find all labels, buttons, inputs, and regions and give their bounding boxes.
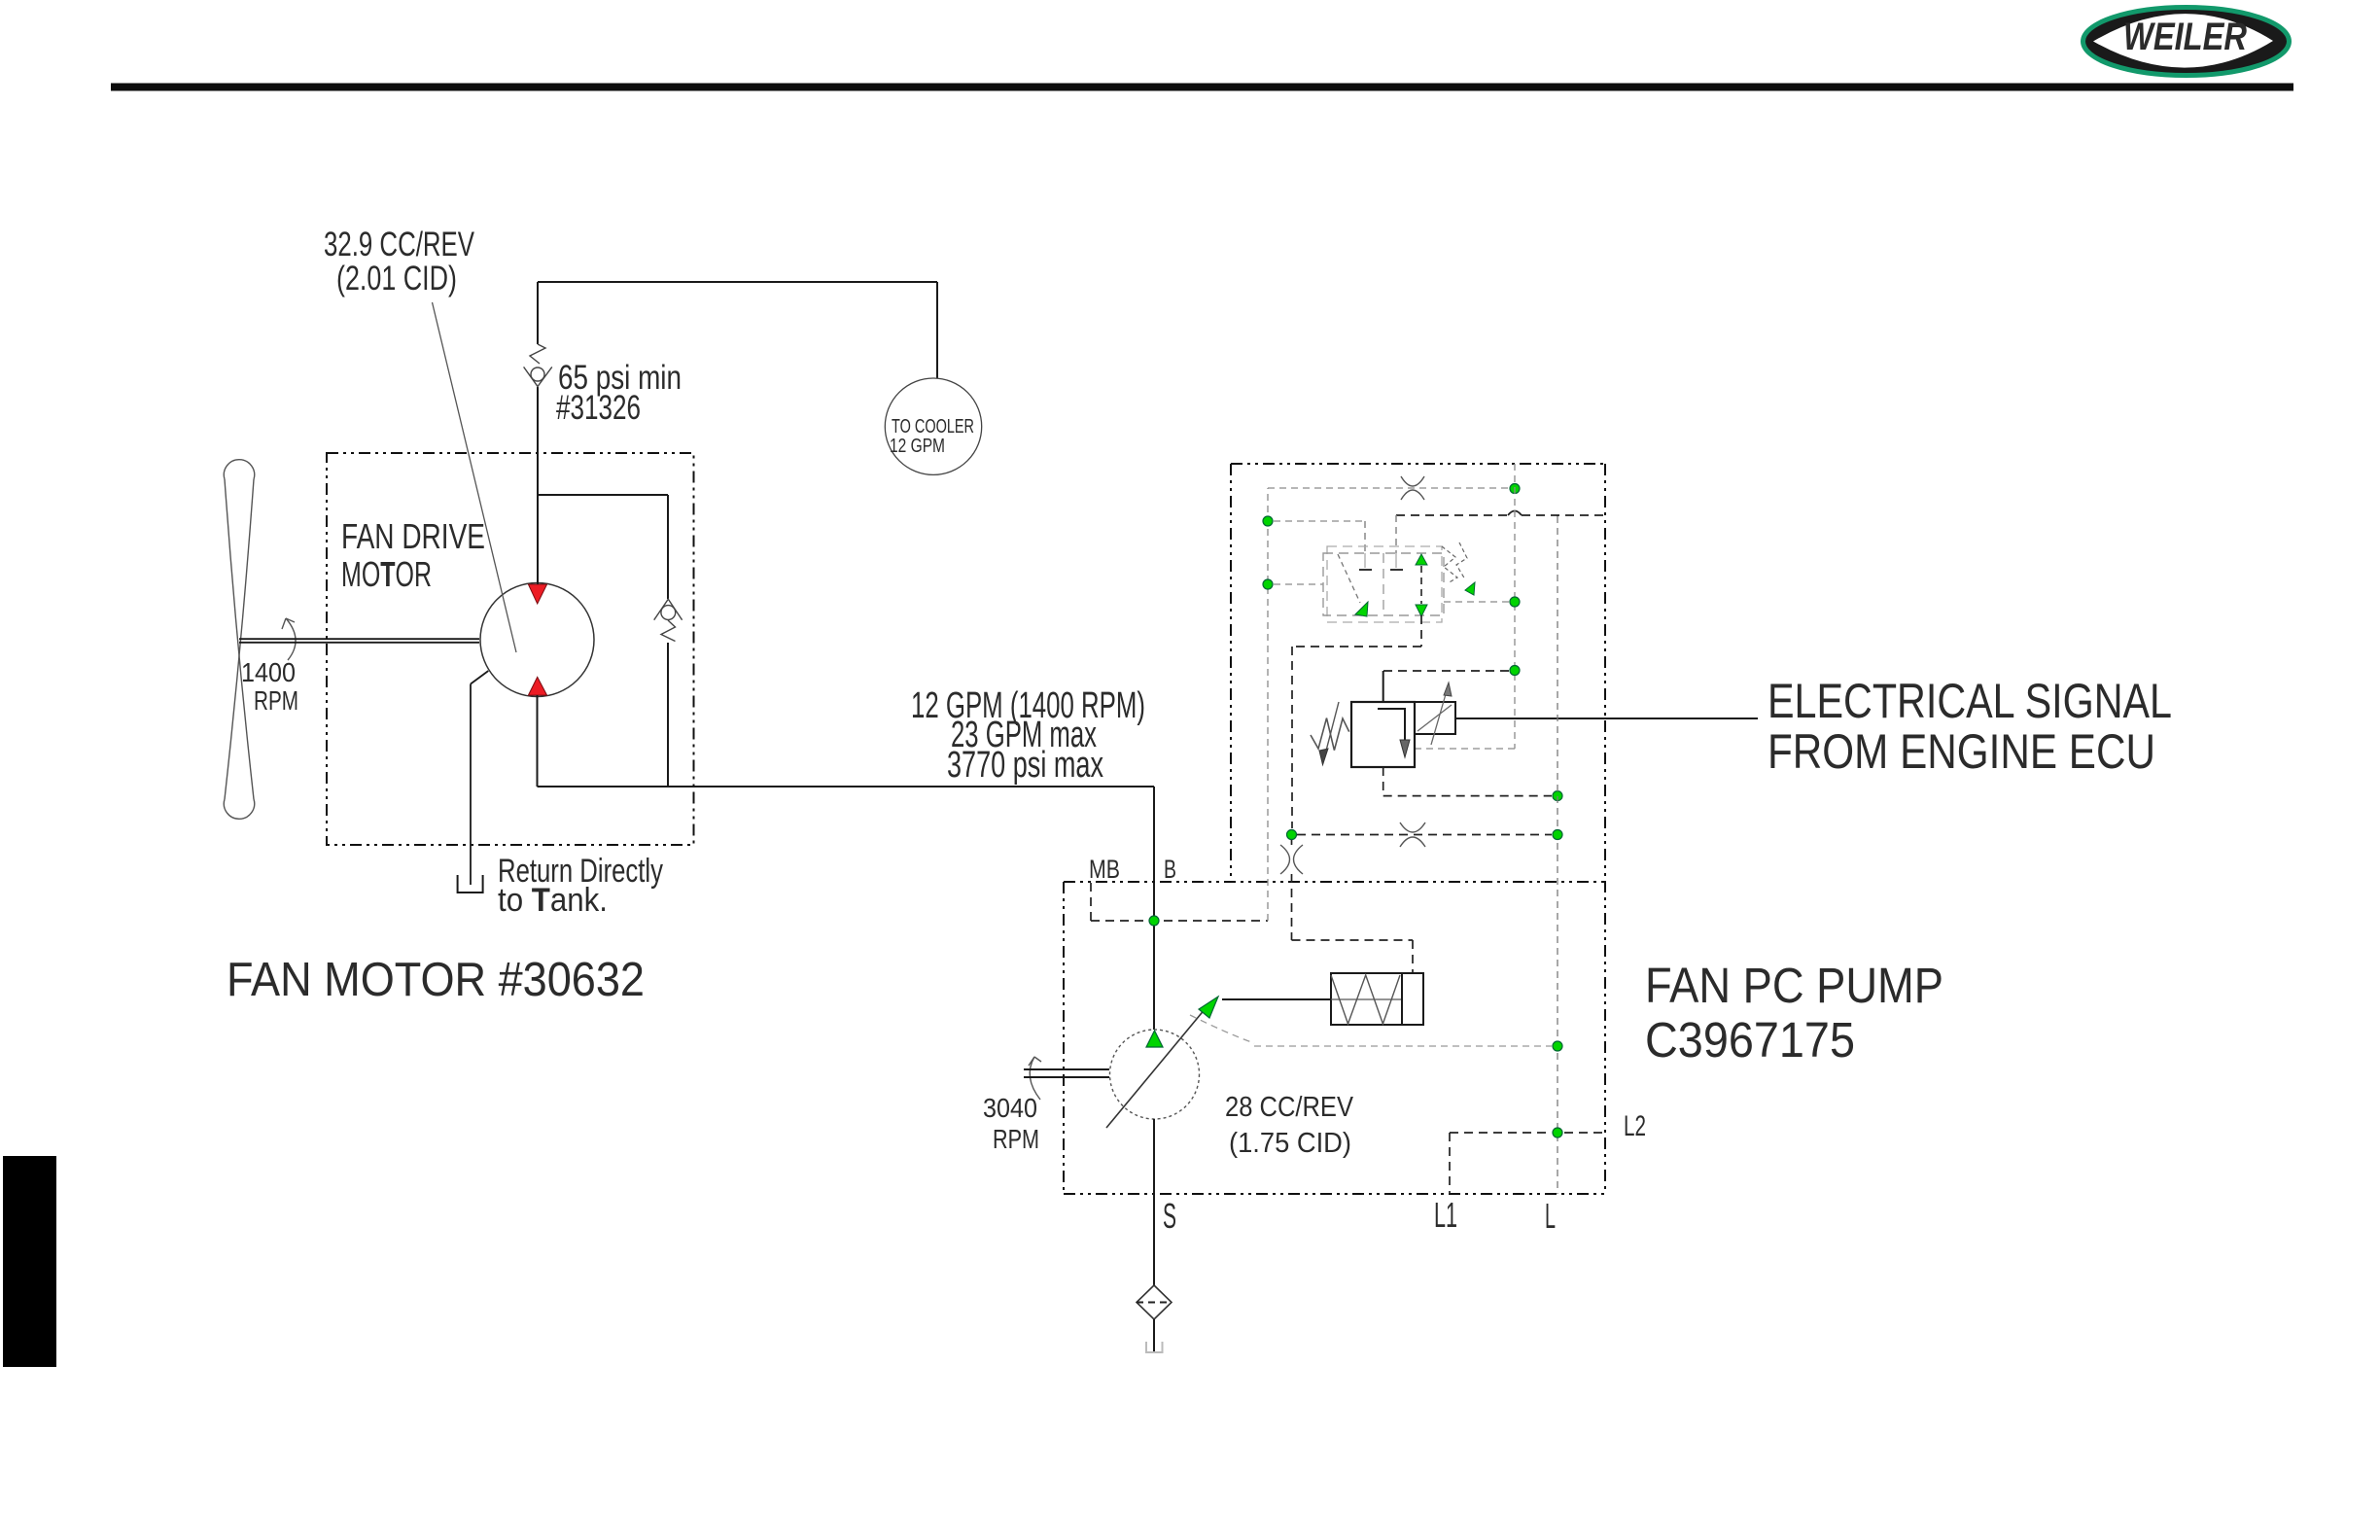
label Return Directly to Tank. [498,853,663,919]
wire: motor return to pump line [538,695,1155,1030]
label FAN PC PUMP C3967175 [1645,958,1943,1067]
orifice O3 [1400,822,1425,847]
wire: case drain pilot [1190,1015,1254,1043]
svg-text:L2: L2 [1624,1110,1646,1142]
wire: MB pilot dashed [1091,883,1268,921]
svg-text:ELECTRICAL SIGNAL: ELECTRICAL SIGNAL [1767,674,2172,728]
valve V1 solenoid lightning arrow [1456,542,1467,579]
svg-text:1400: 1400 [241,657,296,687]
wire: pilot y536 [1274,520,1365,522]
svg-text:MB: MB [1089,855,1120,884]
compensator spring box [1331,973,1402,1025]
svg-text:28 CC/REV: 28 CC/REV [1225,1092,1354,1123]
pump swash arrow [1106,1002,1210,1128]
wire: pilot riser x1558 [1514,464,1516,749]
TO COOLER circle [885,378,981,474]
wire: pilot y601 [1274,583,1323,585]
label 3040 RPM [983,1093,1039,1154]
svg-text:to Tank.: to Tank. [498,882,608,919]
strainer F1 [1137,1285,1172,1319]
svg-text:WEILER: WEILER [2123,16,2247,58]
node N11 (B junction) [1149,916,1159,926]
node N7 [1287,830,1297,840]
svg-text:3040: 3040 [983,1093,1037,1123]
label 1400 RPM [241,657,298,716]
wire: pilot riser left [1268,488,1509,921]
valve V1 right position triangles [1416,554,1427,565]
wire: drain header dashed [1396,515,1605,516]
svg-text:C3967175: C3967175 [1645,1012,1855,1067]
wire hop over pilot [1508,511,1522,516]
wire: L1 drain [1450,1133,1605,1194]
node N9 [1553,1041,1562,1051]
motor M1 circle [480,583,594,697]
control valve enclosure box [1231,464,1605,1194]
orifice O2 [1280,845,1303,874]
node N2 [1263,516,1273,526]
label 32.9 CC/REV (2.01 CID) [324,226,474,297]
wire: drain riser x1602 [1557,516,1558,1194]
compensator piston box [1402,973,1423,1025]
orifice O1 [1401,476,1424,500]
pump enclosure box [1064,882,1605,1194]
pump P1 circle [1110,1030,1200,1119]
svg-text:FAN DRIVE: FAN DRIVE [341,516,485,556]
svg-text:B: B [1164,855,1176,884]
svg-text:#31326: #31326 [556,389,641,427]
check valve CV2 (bypass) [654,599,682,641]
wire: suction line [1153,1119,1155,1285]
svg-text:TO COOLER: TO COOLER [892,416,974,437]
wire: compensator pilot horizontal [1297,834,1552,836]
pump shaft [1024,1069,1109,1077]
wire: electrical signal [1455,717,1758,719]
motor port triangle bottom (red) [528,677,546,695]
node N5 [1510,666,1520,676]
wire: tank return from motor case [471,671,488,885]
svg-text:32.9 CC/REV: 32.9 CC/REV [324,226,474,263]
fan drive motor enclosure box [327,453,694,845]
solenoid S1 on relief [1415,702,1455,734]
svg-text:12 GPM: 12 GPM [890,436,945,457]
svg-text:(1.75 CID): (1.75 CID) [1229,1128,1351,1159]
pump outlet triangle (green) [1146,1031,1163,1047]
svg-text:MOTOR: MOTOR [341,554,432,594]
fan rotation arrow [282,618,296,660]
valve V1 spring [1442,546,1457,583]
wire: pilot down to compensator [1292,840,1414,973]
label 12 GPM / 23 GPM / 3770 psi [911,685,1145,786]
svg-text:L1: L1 [1434,1195,1457,1235]
label FAN DRIVE MOTOR [341,516,485,594]
svg-text:FAN PC PUMP: FAN PC PUMP [1645,958,1943,1013]
node N6 [1553,791,1562,801]
relief valve RV1 [1382,671,1384,702]
label 28 CC/REV (1.75 CID) [1225,1092,1354,1159]
fan shaft [239,639,479,643]
valve V1 T ports [1359,553,1403,570]
svg-text:S: S [1163,1196,1176,1236]
tank symbol T1 [458,875,483,892]
wire: relief bottom drain [1383,767,1552,796]
Weiler logo [2083,8,2290,76]
label 65 psi min #31326 [556,359,682,427]
solenoid valve V1 body [1327,546,1442,622]
wire: valve to compensator pilot [1292,615,1421,828]
tank symbol T2 [1146,1342,1163,1352]
fan blades [224,460,254,820]
wire: bypass branch [538,495,668,787]
node N10 [1553,1128,1562,1137]
node N8 [1553,830,1562,840]
wire: valve out to node4 [1444,601,1509,603]
svg-text:RPM: RPM [254,685,298,716]
node N1 [1510,484,1520,494]
svg-text:FAN MOTOR #30632: FAN MOTOR #30632 [227,954,645,1006]
wire: relief pilot top [1383,670,1509,672]
valve V1 left position arrow [1338,554,1360,603]
svg-text:3770 psi max: 3770 psi max [947,745,1103,786]
left page tab [3,1156,56,1367]
pump rotation arrow [1029,1057,1041,1100]
svg-text:RPM: RPM [993,1124,1039,1154]
motor port triangle top (red) [528,584,546,604]
node N3 [1263,579,1273,589]
svg-text:L: L [1545,1196,1556,1236]
wire: valve tank stubs [1365,515,1396,553]
check valve CV1 (65 psi) [524,344,552,387]
leader line 32.9 CC/REV [433,302,517,652]
node N4 [1510,597,1520,607]
header rule bar [111,84,2293,91]
svg-text:FROM ENGINE ECU: FROM ENGINE ECU [1767,724,2155,779]
label ELECTRICAL SIGNAL FROM ENGINE ECU [1767,674,2172,779]
relief valve RV1 spring [1311,718,1349,751]
svg-text:(2.01 CID): (2.01 CID) [336,260,457,297]
wire: motor top supply line [538,282,937,584]
wire: relief drain right [1415,748,1515,750]
